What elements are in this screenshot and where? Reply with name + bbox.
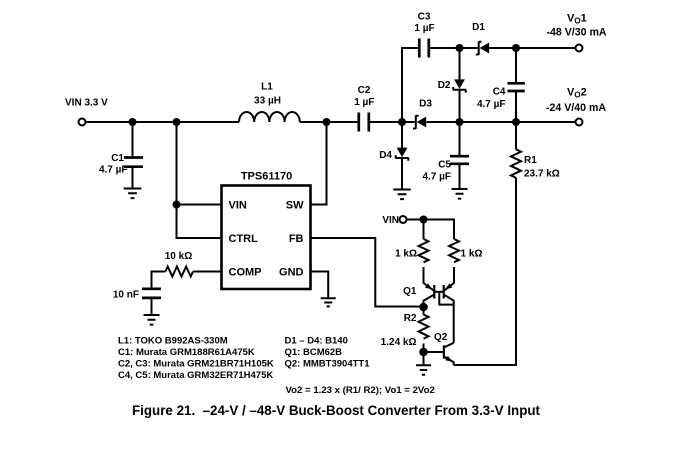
svg-text:C4: C4 [493, 87, 506, 98]
svg-text:VIN: VIN [382, 215, 399, 226]
svg-text:1 µF: 1 µF [354, 97, 374, 108]
svg-text:SW: SW [286, 200, 304, 212]
svg-text:10 nF: 10 nF [113, 290, 139, 301]
svg-text:1 kΩ: 1 kΩ [395, 249, 417, 260]
svg-text:GND: GND [279, 267, 304, 279]
svg-text:C1: Murata GRM188R61A475K: C1: Murata GRM188R61A475K [118, 347, 255, 358]
svg-text:Vo2 = 1.23 x (R1/ R2); Vo1 = 2: Vo2 = 1.23 x (R1/ R2); Vo1 = 2Vo2 [286, 385, 435, 396]
svg-text:VIN: VIN [229, 200, 247, 212]
svg-text:10 kΩ: 10 kΩ [165, 251, 192, 262]
svg-text:L1: L1 [261, 82, 273, 93]
svg-text:Q1: Q1 [403, 286, 417, 297]
svg-text:Figure 21. –24-V / –48-V Buck: Figure 21. –24-V / –48-V Buck-Boost Conv… [132, 403, 540, 418]
svg-text:1 kΩ: 1 kΩ [461, 249, 483, 260]
svg-text:4.7 µF: 4.7 µF [422, 172, 451, 183]
svg-text:L1: TOKO B992AS-330M: L1: TOKO B992AS-330M [118, 336, 228, 347]
svg-text:Q1: BCM62B: Q1: BCM62B [285, 347, 343, 358]
svg-text:-48 V/30 mA: -48 V/30 mA [546, 27, 606, 39]
svg-text:C3: C3 [418, 12, 431, 23]
svg-text:D1 – D4: B140: D1 – D4: B140 [285, 336, 348, 347]
svg-text:D2: D2 [438, 80, 451, 91]
svg-text:4.7 µF: 4.7 µF [477, 99, 506, 110]
svg-text:Q2: Q2 [434, 332, 448, 343]
svg-text:Q2: MMBT3904TT1: Q2: MMBT3904TT1 [285, 359, 371, 370]
svg-text:FB: FB [289, 233, 304, 245]
svg-text:D4: D4 [379, 150, 392, 161]
svg-text:CTRL: CTRL [229, 233, 259, 245]
svg-text:C4, C5: Murata GRM32ER71H475K: C4, C5: Murata GRM32ER71H475K [118, 370, 273, 381]
svg-text:TPS61170: TPS61170 [241, 171, 292, 183]
svg-text:VO1: VO1 [567, 13, 587, 26]
svg-text:1 µF: 1 µF [414, 23, 434, 34]
svg-text:4.7 µF: 4.7 µF [99, 165, 128, 176]
svg-text:D1: D1 [472, 22, 485, 33]
svg-text:C2, C3: Murata GRM21BR71H105K: C2, C3: Murata GRM21BR71H105K [118, 359, 274, 370]
svg-text:VIN 3.3 V: VIN 3.3 V [65, 98, 108, 109]
svg-text:VO2: VO2 [567, 87, 587, 100]
svg-text:1.24 kΩ: 1.24 kΩ [381, 337, 417, 348]
svg-text:COMP: COMP [229, 267, 262, 279]
svg-text:R1: R1 [524, 155, 537, 166]
svg-text:C2: C2 [358, 85, 371, 96]
svg-text:C1: C1 [111, 153, 124, 164]
svg-text:23.7 kΩ: 23.7 kΩ [524, 169, 560, 180]
svg-text:33 µH: 33 µH [254, 96, 281, 107]
svg-text:D3: D3 [419, 99, 432, 110]
svg-text:-24 V/40 mA: -24 V/40 mA [546, 102, 606, 114]
svg-text:C5: C5 [438, 160, 451, 171]
svg-text:R2: R2 [404, 313, 417, 324]
